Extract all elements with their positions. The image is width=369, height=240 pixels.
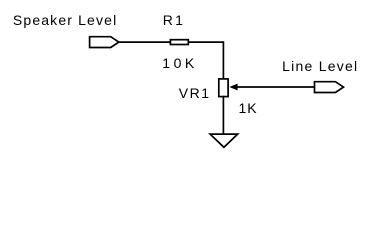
net label Line Level bbox=[282, 59, 358, 73]
port Line Level bbox=[315, 82, 344, 93]
potentiometer VR1 wiper arrow bbox=[229, 84, 237, 91]
net label Speaker Level bbox=[13, 13, 117, 27]
port Speaker Level bbox=[90, 37, 119, 48]
reference label VR1 bbox=[179, 86, 211, 100]
ground bbox=[210, 134, 238, 147]
wire VR1 to ground bbox=[222, 97, 224, 134]
value label 1K bbox=[239, 101, 258, 115]
value label 10K bbox=[162, 56, 197, 70]
wire R1 to corner and down to VR1 bbox=[189, 42, 223, 78]
potentiometer VR1 body bbox=[219, 79, 228, 97]
wire wiper to Line Level port bbox=[237, 86, 315, 88]
wire port to R1 bbox=[119, 41, 170, 43]
reference label R1 bbox=[163, 13, 185, 27]
resistor R1 bbox=[170, 40, 188, 45]
